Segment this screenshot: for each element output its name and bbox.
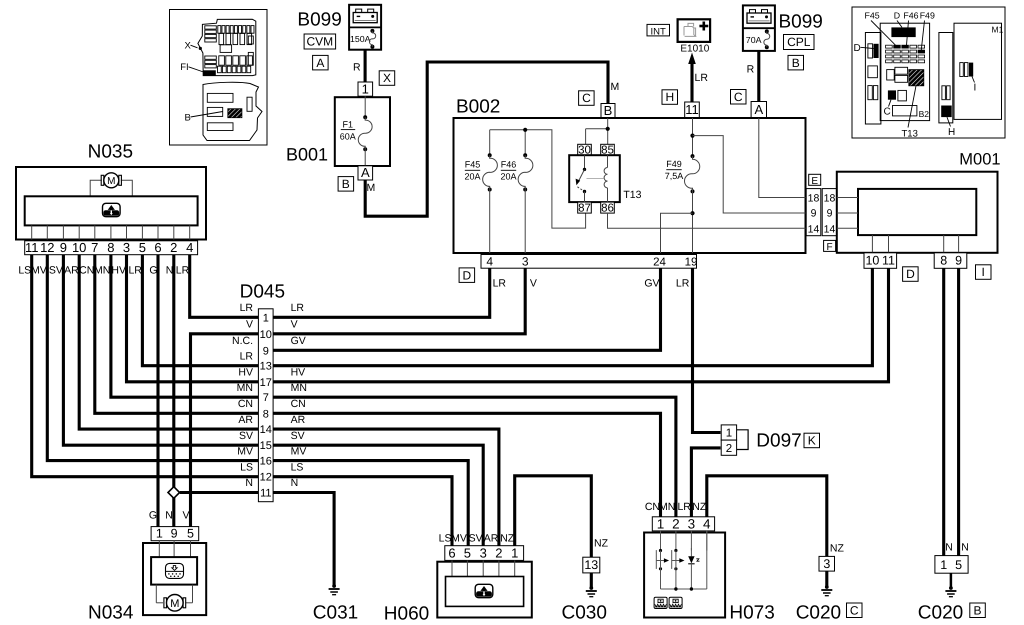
svg-text:9: 9: [955, 254, 962, 268]
svg-text:AR: AR: [64, 265, 79, 277]
svg-text:6: 6: [154, 240, 161, 255]
connector D097: [721, 425, 819, 455]
svg-text:7: 7: [91, 240, 98, 255]
svg-text:E: E: [811, 176, 818, 187]
svg-text:MV: MV: [291, 445, 307, 457]
svg-text:9: 9: [263, 345, 269, 357]
svg-text:D: D: [894, 11, 900, 21]
svg-text:MN: MN: [291, 382, 307, 394]
svg-text:C: C: [582, 91, 591, 105]
wire MN: D045 pin 7 to H073 pin 2: [273, 397, 676, 517]
pin 11: [685, 102, 700, 118]
svg-text:12: 12: [40, 240, 54, 255]
wire: F49 to pin 9: [693, 136, 806, 213]
svg-text:C020: C020: [918, 603, 963, 624]
wire SV: D045 pin 15 to H060 pin 3: [273, 445, 483, 546]
wire N: N035 pin 2 to N034 pin 9 (junction to D045 pin 11): [172, 255, 175, 527]
svg-text:I: I: [982, 265, 985, 279]
svg-text:N: N: [166, 265, 174, 277]
blower icon: [103, 210, 119, 216]
svg-text:F46: F46: [501, 160, 517, 170]
svg-text:B2: B2: [919, 109, 930, 119]
svg-text:LR: LR: [128, 265, 142, 277]
svg-text:5: 5: [464, 545, 471, 560]
svg-text:5: 5: [955, 558, 962, 572]
pins 4/3/24/19: [481, 255, 697, 269]
svg-text:R: R: [747, 64, 755, 76]
svg-text:LR: LR: [493, 278, 507, 290]
svg-text:H073: H073: [729, 603, 774, 624]
svg-text:GV: GV: [291, 335, 306, 347]
svg-text:4: 4: [703, 516, 711, 531]
svg-text:5: 5: [139, 240, 146, 255]
wire LR: B002 pin 11 to E1010 (arrow up): [690, 62, 693, 102]
wire N035 pin 9 to D045 pin 15: [63, 255, 258, 446]
wire from M001 pin 9 to C020B pin 5: [957, 269, 960, 556]
svg-text:A: A: [361, 165, 370, 180]
svg-text:17: 17: [260, 377, 272, 389]
ground point E1010 (INT): [647, 19, 710, 54]
inset: fusebox detail drawing (top-right): [852, 7, 1005, 140]
marker F1 (black fuse): [204, 70, 216, 75]
wire NZ: H060 pin 1 to C030: [515, 476, 592, 557]
control unit H073: [644, 501, 775, 623]
svg-text:N: N: [245, 477, 253, 489]
svg-text:H: H: [665, 90, 674, 104]
svg-text:T13: T13: [902, 129, 918, 140]
wire V: D045 pin 10 to N034 pin 5: [191, 334, 259, 527]
svg-text:70A: 70A: [746, 35, 762, 45]
marker H (black): [941, 106, 952, 118]
svg-text:CN: CN: [291, 398, 306, 410]
svg-text:B001: B001: [286, 145, 328, 165]
svg-text:B099: B099: [297, 10, 341, 31]
svg-text:B: B: [973, 604, 981, 618]
control unit M001: [837, 151, 1001, 282]
svg-text:60A: 60A: [340, 131, 356, 141]
motor M: [90, 180, 102, 196]
fuse unit B001: [286, 81, 390, 194]
svg-text:C: C: [850, 604, 859, 618]
svg-text:M: M: [170, 598, 179, 610]
svg-text:NZ: NZ: [830, 543, 845, 555]
svg-text:5: 5: [187, 527, 194, 541]
svg-text:B: B: [185, 113, 191, 124]
pins 10/11: [864, 253, 897, 268]
svg-text:A: A: [316, 56, 324, 70]
svg-text:E1010: E1010: [680, 44, 709, 55]
svg-text:C020: C020: [796, 603, 841, 624]
svg-text:10: 10: [260, 329, 272, 341]
svg-text:NZ: NZ: [692, 501, 707, 513]
wire N035 pin 7 to D045 pin 8: [95, 255, 259, 414]
svg-text:1: 1: [362, 81, 369, 96]
node X: [379, 71, 395, 86]
svg-text:MV: MV: [237, 445, 253, 457]
svg-text:M: M: [107, 176, 115, 187]
wire: 87 to F45/F46 rail: [490, 130, 586, 228]
svg-text:19: 19: [685, 256, 698, 268]
svg-text:CN: CN: [238, 398, 253, 410]
wire HV: D045 pin 17 to M001 pin 11: [273, 269, 888, 382]
wire R: B099 to B001 pin 1: [364, 50, 367, 82]
svg-text:13: 13: [260, 361, 272, 373]
svg-text:8: 8: [940, 254, 947, 268]
svg-text:H: H: [948, 127, 955, 138]
wire N035 pin 4 to D045 pin 1: [190, 255, 259, 318]
svg-text:13: 13: [584, 558, 598, 572]
svg-text:24: 24: [653, 256, 666, 268]
svg-text:11: 11: [882, 254, 895, 268]
svg-text:G: G: [149, 510, 157, 522]
svg-text:3: 3: [123, 240, 130, 255]
svg-text:20A: 20A: [500, 172, 516, 182]
wire LR: D097 pin 2 to H073 pin 3: [691, 448, 720, 517]
relay T13: [578, 144, 592, 155]
svg-text:CPL: CPL: [787, 35, 811, 49]
svg-text:7,5A: 7,5A: [665, 171, 684, 181]
svg-text:3: 3: [522, 254, 529, 268]
svg-text:LR: LR: [240, 302, 254, 314]
svg-text:R: R: [353, 62, 361, 74]
svg-text:C: C: [884, 107, 891, 118]
resistor block: [25, 196, 198, 225]
svg-text:CVM: CVM: [306, 35, 333, 49]
wire LR: D045 pin 1 to B002 pin 4: [273, 268, 490, 317]
svg-text:MN: MN: [94, 265, 110, 277]
svg-text:LR: LR: [676, 278, 690, 290]
ground C031: [313, 584, 358, 623]
svg-text:LS: LS: [291, 461, 304, 473]
wire R: B099(CPL) to B002 pin A: [757, 51, 760, 102]
svg-text:AR: AR: [238, 414, 253, 426]
svg-text:INT: INT: [651, 26, 667, 37]
svg-text:2: 2: [170, 240, 177, 255]
svg-text:20A: 20A: [464, 172, 480, 182]
svg-text:C: C: [734, 90, 743, 104]
svg-text:11: 11: [260, 488, 271, 500]
svg-text:MN: MN: [659, 501, 675, 513]
marker T13 (hatched relay): [909, 70, 924, 86]
svg-text:V: V: [291, 319, 298, 331]
svg-text:N: N: [961, 542, 969, 554]
svg-text:11: 11: [25, 240, 39, 255]
svg-text:HV: HV: [238, 367, 253, 379]
pins 18/9/14 (B002-M001): [809, 174, 821, 185]
svg-text:K: K: [808, 434, 816, 448]
svg-text:V: V: [246, 319, 253, 331]
svg-text:V: V: [182, 510, 189, 522]
ground C030: [562, 538, 609, 624]
svg-text:B: B: [604, 103, 613, 118]
svg-text:SV: SV: [49, 265, 63, 277]
wire N035 pin 8 to D045 pin 7: [111, 255, 259, 398]
svg-text:12: 12: [260, 472, 272, 484]
svg-text:N.C.: N.C.: [232, 335, 253, 347]
pin A: [358, 166, 373, 180]
svg-text:F: F: [827, 242, 833, 253]
svg-text:F45: F45: [865, 11, 880, 21]
svg-text:FI: FI: [180, 62, 188, 73]
pins 8/9: [934, 253, 967, 268]
svg-text:LS: LS: [240, 461, 253, 473]
svg-text:8: 8: [107, 240, 114, 255]
svg-text:11: 11: [685, 102, 699, 117]
svg-text:14: 14: [808, 223, 820, 235]
svg-text:1: 1: [156, 527, 163, 541]
wire: D045 pin 13 to M001 pin 10: [273, 269, 872, 366]
blower resistor connector H060: [384, 533, 532, 625]
svg-text:F1: F1: [343, 119, 354, 129]
svg-text:F49: F49: [920, 11, 935, 21]
svg-text:AR: AR: [291, 414, 306, 426]
svg-text:HV: HV: [111, 265, 126, 277]
svg-text:1: 1: [511, 545, 518, 560]
svg-text:NZ: NZ: [500, 533, 515, 545]
svg-text:1: 1: [263, 312, 269, 324]
pin A: [751, 102, 766, 119]
svg-text:M: M: [367, 182, 376, 194]
svg-text:9: 9: [60, 240, 67, 255]
svg-text:LR: LR: [240, 350, 254, 362]
inset: fusebox location drawing (top-left): [170, 10, 268, 146]
svg-text:15: 15: [260, 440, 272, 452]
svg-text:N: N: [165, 510, 173, 522]
svg-text:LR: LR: [176, 265, 190, 277]
svg-text:B: B: [792, 56, 800, 70]
svg-text:LS: LS: [18, 265, 31, 277]
wire N035 pin 10 to D045 pin 14: [79, 255, 258, 429]
marker I (black): [969, 63, 973, 77]
svg-text:F49: F49: [666, 159, 682, 169]
wire LS: D045 pin 12 to H060 pin 6: [273, 477, 452, 546]
wire: F49 to pin 24: [661, 213, 693, 253]
svg-text:N: N: [291, 477, 299, 489]
svg-text:I: I: [974, 83, 977, 94]
wire G: N035 pin 6 to N034 pin 1: [156, 255, 159, 527]
connector D045: [232, 282, 307, 502]
svg-text:SV: SV: [291, 430, 305, 442]
svg-text:HV: HV: [291, 367, 306, 379]
svg-text:CN: CN: [79, 265, 94, 277]
svg-text:G: G: [149, 265, 157, 277]
svg-text:M001: M001: [959, 151, 1000, 169]
svg-text:B: B: [342, 177, 350, 191]
svg-text:F45: F45: [465, 160, 481, 170]
svg-text:1: 1: [726, 428, 732, 440]
svg-text:2: 2: [672, 516, 680, 531]
wire M: B001 to B002 pin B: [365, 62, 608, 216]
svg-text:1: 1: [657, 516, 665, 531]
svg-text:86: 86: [601, 202, 614, 214]
svg-text:X: X: [383, 71, 391, 85]
wire CN: D045 pin 8 to H073 pin 1: [273, 413, 660, 517]
svg-text:SV: SV: [469, 533, 483, 545]
svg-text:3: 3: [688, 516, 696, 531]
wire NZ: H073 pin 4 to C020C: [707, 476, 827, 557]
wire GV: D045 pin 9 to B002 pin 24: [273, 268, 660, 350]
svg-text:CN: CN: [645, 501, 660, 513]
svg-text:18: 18: [808, 192, 820, 204]
svg-text:GV: GV: [644, 278, 659, 290]
wire N035 pin 11 to D045 pin 12: [32, 255, 259, 477]
svg-text:9: 9: [171, 527, 178, 541]
motor M: [155, 585, 157, 603]
svg-text:NZ: NZ: [594, 538, 609, 550]
svg-text:2: 2: [495, 545, 502, 560]
battery B099 (CPL side): [743, 5, 823, 70]
wire: pin 11 feed to F49: [692, 118, 694, 156]
wire N035 pin 5 to D045 pin 13: [142, 255, 258, 366]
junction node (diamond): [168, 487, 180, 499]
svg-text:B002: B002: [456, 97, 500, 118]
wire N035 pin 3 to D045 pin 17: [127, 255, 259, 382]
wire N: D045 pin 11 to ground C031: [273, 493, 334, 587]
svg-text:14: 14: [824, 223, 836, 235]
svg-text:M: M: [611, 81, 620, 93]
wire: relay 86 to pin 14: [608, 213, 806, 228]
actuator icon: [166, 563, 184, 578]
svg-text:LR: LR: [677, 501, 691, 513]
pin 1: [358, 82, 373, 96]
svg-text:C031: C031: [313, 603, 358, 624]
svg-text:16: 16: [260, 456, 272, 468]
heater distribution actuator N034: [88, 527, 206, 624]
svg-text:2: 2: [726, 443, 732, 455]
svg-text:F46: F46: [903, 11, 918, 21]
svg-text:LR: LR: [695, 72, 709, 84]
N035 pin numbers: [25, 241, 198, 255]
svg-text:H060: H060: [384, 604, 429, 625]
svg-text:D: D: [854, 43, 861, 54]
svg-text:D097: D097: [756, 431, 801, 452]
svg-text:SV: SV: [239, 430, 253, 442]
svg-text:4: 4: [486, 254, 493, 268]
svg-text:14: 14: [260, 424, 272, 436]
svg-text:8: 8: [263, 408, 269, 420]
svg-text:B099: B099: [779, 12, 823, 33]
wire: pin A to pin 18: [759, 118, 806, 198]
wire LR: B002 pin 19 to D097 pin 1: [693, 268, 721, 432]
svg-text:MV: MV: [31, 265, 47, 277]
ground C020 (C): [796, 543, 862, 624]
svg-text:LR: LR: [291, 302, 305, 314]
svg-text:9: 9: [811, 207, 817, 219]
svg-text:C030: C030: [562, 603, 607, 624]
heater blower N035: [16, 142, 206, 240]
svg-text:150A: 150A: [350, 34, 371, 44]
svg-text:N034: N034: [88, 603, 134, 624]
svg-text:MN: MN: [237, 382, 253, 394]
svg-text:T13: T13: [623, 189, 641, 201]
svg-text:M1: M1: [992, 24, 1004, 34]
svg-text:V: V: [530, 278, 537, 290]
svg-text:9: 9: [827, 207, 833, 219]
svg-text:10: 10: [865, 254, 879, 268]
wire from M001 pin 8 to C020B pin 1: [942, 269, 945, 556]
svg-text:18: 18: [824, 192, 836, 204]
wire N035 pin 12 to D045 pin 16: [47, 255, 258, 461]
svg-text:A: A: [754, 102, 763, 117]
svg-text:N: N: [945, 542, 953, 554]
marker C (black relay): [888, 90, 896, 99]
wire MV: D045 pin 16 to H060 pin 5: [273, 461, 468, 546]
svg-text:3: 3: [480, 545, 487, 560]
svg-text:LS: LS: [439, 533, 452, 545]
svg-text:D045: D045: [240, 282, 285, 303]
svg-text:4: 4: [186, 240, 193, 255]
junction unit B002: [454, 91, 837, 283]
svg-text:AR: AR: [484, 533, 499, 545]
pin B: [601, 104, 615, 119]
svg-text:D: D: [906, 267, 915, 281]
svg-text:MV: MV: [451, 533, 467, 545]
wire V: D045 pin 10 to B002 pin 3: [273, 268, 525, 334]
svg-text:10: 10: [72, 240, 86, 255]
svg-text:1: 1: [940, 558, 947, 572]
N035 pin ticks: [31, 225, 33, 239]
svg-text:87: 87: [578, 202, 591, 214]
ground C020 (B): [918, 542, 986, 624]
battery B099 (CVM side): [297, 5, 381, 70]
svg-text:D: D: [462, 268, 471, 282]
svg-text:X: X: [185, 40, 192, 51]
wire AR: D045 pin 14 to H060 pin 2: [273, 429, 499, 546]
wire: feed rail B/30/85: [607, 118, 609, 144]
svg-text:3: 3: [823, 557, 830, 571]
svg-text:6: 6: [448, 545, 455, 560]
svg-text:N035: N035: [88, 142, 133, 163]
svg-text:7: 7: [263, 392, 269, 404]
